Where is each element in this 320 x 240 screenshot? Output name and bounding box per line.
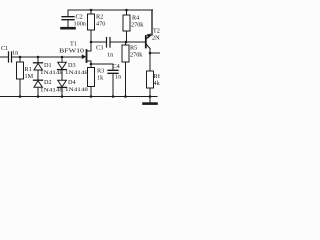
junction node D3 top xyxy=(61,56,64,59)
diode D3 triangle xyxy=(58,62,67,69)
wire source node to C4 xyxy=(91,63,113,65)
diode D2 xyxy=(34,80,43,96)
svg-text:4k: 4k xyxy=(154,80,161,87)
svg-text:1M: 1M xyxy=(25,73,34,80)
svg-text:2N2: 2N2 xyxy=(152,35,160,42)
junction node R3 bottom xyxy=(90,95,93,98)
junction node R2 top rail xyxy=(90,9,93,12)
transistor T2 emitter arrowhead xyxy=(147,33,151,38)
wire gate line C1 to T1 gate xyxy=(12,56,83,58)
transistor T1 gate arrowhead xyxy=(82,54,86,59)
transistor T2 emitter lead xyxy=(147,45,151,72)
wire drain node to C3 xyxy=(91,41,106,43)
resistor R6 xyxy=(147,71,154,97)
capacitor C2 xyxy=(62,10,74,27)
svg-text:D2: D2 xyxy=(44,79,52,86)
wire top supply rail xyxy=(68,9,153,11)
svg-text:BFW10: BFW10 xyxy=(59,49,84,55)
junction node source/R3 xyxy=(90,63,93,66)
svg-text:100n: 100n xyxy=(74,21,86,28)
diode D3 xyxy=(58,57,67,80)
resistor R1 xyxy=(17,57,24,97)
junction node D4 bottom xyxy=(61,95,64,98)
resistor R2 xyxy=(88,10,95,51)
svg-text:R5: R5 xyxy=(130,45,137,52)
resistor R4 xyxy=(123,10,130,42)
svg-text:1N4148: 1N4148 xyxy=(65,87,88,93)
ground bar under C2 xyxy=(62,27,75,30)
svg-text:270k: 270k xyxy=(130,52,143,59)
svg-text:R6: R6 xyxy=(154,73,161,80)
transistor T1 source lead xyxy=(87,61,92,64)
diode D4 xyxy=(58,87,67,96)
wire input line to C1 xyxy=(0,56,8,58)
capacitor C1 xyxy=(9,52,12,62)
svg-text:C4: C4 xyxy=(113,63,120,70)
transistor T1 drain lead xyxy=(87,50,92,52)
diode D2 triangle xyxy=(34,81,43,88)
svg-text:1N4148: 1N4148 xyxy=(40,88,63,94)
ground symbol bottom right xyxy=(144,97,157,104)
transistor T1 JFET channel xyxy=(86,50,88,62)
resistor R3 xyxy=(88,64,95,97)
svg-text:T2: T2 xyxy=(153,28,160,35)
wire C3 to base junction xyxy=(110,41,145,43)
junction node drain/C3 xyxy=(90,41,93,44)
svg-text:T1: T1 xyxy=(70,41,77,48)
svg-text:R1: R1 xyxy=(25,66,32,73)
svg-text:R2: R2 xyxy=(96,14,103,21)
transistor T2 collector lead xyxy=(147,10,153,39)
svg-text:1n: 1n xyxy=(115,74,121,81)
junction node R1 bottom xyxy=(19,95,22,98)
junction node D1 top xyxy=(37,56,40,59)
junction node R4 top rail xyxy=(125,9,128,12)
svg-text:1N4148: 1N4148 xyxy=(65,70,88,76)
junction node base divider xyxy=(125,41,128,44)
svg-text:C2: C2 xyxy=(76,14,83,21)
svg-text:R4: R4 xyxy=(132,15,139,22)
svg-text:270k: 270k xyxy=(131,22,144,29)
junction node emitter output xyxy=(149,52,152,55)
svg-text:1N4148: 1N4148 xyxy=(40,70,63,76)
diode D1 xyxy=(34,57,43,80)
wire bottom ground rail xyxy=(0,96,157,98)
svg-text:1k: 1k xyxy=(97,75,104,82)
junction node C1/R1/D-line xyxy=(19,56,22,59)
capacitor C3 xyxy=(107,38,111,48)
transistor T2 base bar xyxy=(145,36,147,48)
svg-text:470: 470 xyxy=(96,21,105,28)
junction node C4 bottom xyxy=(112,95,115,98)
svg-text:C3: C3 xyxy=(96,45,103,52)
svg-text:R3: R3 xyxy=(97,68,104,75)
svg-text:1n: 1n xyxy=(12,50,18,57)
wire output from emitter node xyxy=(150,52,160,54)
svg-text:D3: D3 xyxy=(68,62,76,69)
svg-text:1n: 1n xyxy=(107,52,113,59)
junction node R6 bottom xyxy=(149,95,152,98)
diode D1 triangle xyxy=(34,63,43,70)
svg-text:D4: D4 xyxy=(68,79,76,86)
junction node R5 bottom xyxy=(124,95,127,98)
junction node D2 bottom xyxy=(37,95,40,98)
capacitor C4 xyxy=(108,64,118,97)
svg-text:D1: D1 xyxy=(44,62,52,69)
resistor R5 xyxy=(122,42,129,97)
svg-text:C1: C1 xyxy=(1,45,8,52)
diode D4 triangle xyxy=(58,80,67,87)
